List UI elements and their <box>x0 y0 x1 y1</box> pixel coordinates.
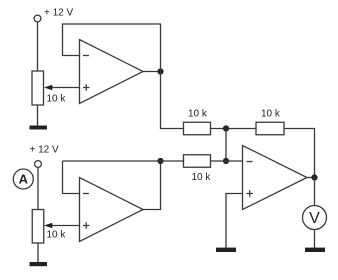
wire U2 feedback and row to resistor <box>63 160 184 162</box>
svg-text:10 k: 10 k <box>188 109 208 120</box>
wire voltmeter to ground <box>314 230 316 248</box>
ground G2 <box>30 262 48 266</box>
wire U2 feedback drop to inverting input <box>63 161 80 194</box>
svg-text:V: V <box>309 210 320 227</box>
wire resistor to summing node <box>211 128 257 130</box>
ground G3 <box>216 248 236 252</box>
junction U3 output node <box>311 174 317 180</box>
wire U3 output <box>307 177 315 179</box>
wire R2 bottom to ground <box>37 243 39 262</box>
wire U3 output to voltmeter <box>314 178 316 206</box>
wire feedback resistor to U3 output <box>284 129 315 178</box>
op-amp U2 body <box>80 178 144 242</box>
feedback resistor 10k (U3) <box>256 122 284 135</box>
resistor 10k (from U1) <box>184 122 211 135</box>
U1 non-inverting input mark <box>83 84 89 90</box>
wire U1 output <box>143 71 161 73</box>
op-amp U3 body <box>243 146 308 210</box>
svg-text:10 k: 10 k <box>261 109 281 120</box>
svg-text:+ 12 V: + 12 V <box>30 145 60 156</box>
U3 inverting input mark <box>247 161 253 163</box>
U3 non-inverting input mark <box>247 190 253 196</box>
voltmeter V body <box>303 206 327 230</box>
wire summing node vertical <box>225 129 227 162</box>
U1 inverting input mark <box>83 55 89 57</box>
svg-text:10 k: 10 k <box>47 230 67 241</box>
junction U2 output node <box>157 158 163 164</box>
wire R1 bottom to ground <box>37 105 39 126</box>
junction summing node bottom <box>223 158 229 164</box>
wire U3 + input to ground <box>226 194 243 248</box>
wire U1 output down to summing resistor <box>161 72 184 129</box>
wire U1 feedback loop <box>63 24 161 72</box>
wire R2 wiper to op-amp U2 + input <box>52 225 80 227</box>
ground G1 <box>30 126 48 130</box>
node label A circle <box>13 169 33 189</box>
potentiometer R1 body <box>32 71 44 105</box>
wire terminal to potentiometer R1 <box>37 22 39 71</box>
junction summing node top <box>223 125 229 131</box>
U2 inverting input mark <box>83 193 89 195</box>
wiper arrowhead R1 <box>44 85 52 90</box>
junction U1 output node <box>157 68 163 74</box>
wire terminal to potentiometer R2 <box>37 167 39 209</box>
svg-text:10 k: 10 k <box>47 94 67 105</box>
potentiometer R2 body <box>32 210 44 244</box>
svg-text:A: A <box>19 171 29 186</box>
wire R1 wiper to op-amp U1 + input <box>52 87 80 89</box>
resistor 10k (from U2) <box>184 155 211 168</box>
svg-text:+ 12 V: + 12 V <box>44 8 74 19</box>
op-amp U1 body <box>80 40 144 104</box>
terminal +12V (bottom) <box>35 161 42 168</box>
terminal +12V (top) <box>34 15 41 22</box>
wire U2 output riser <box>143 161 161 210</box>
wiper arrowhead R2 <box>44 223 52 228</box>
svg-text:10 k: 10 k <box>192 172 212 183</box>
ground G4 <box>305 248 325 252</box>
wire resistor to U3 inverting input <box>211 160 243 162</box>
U2 non-inverting input mark <box>83 222 89 228</box>
